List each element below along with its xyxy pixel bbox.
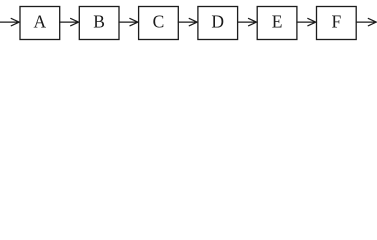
block E — [257, 7, 297, 40]
svg-text:F: F — [331, 11, 341, 31]
wire arrow C to D — [178, 18, 197, 25]
wire input arrow — [0, 18, 19, 25]
svg-text:A: A — [34, 11, 47, 31]
wire arrow B to C — [119, 18, 138, 25]
block C — [139, 7, 179, 40]
block A — [20, 7, 60, 40]
svg-text:C: C — [153, 11, 165, 31]
svg-text:D: D — [211, 11, 224, 31]
svg-text:B: B — [93, 11, 105, 31]
block D — [198, 7, 238, 40]
wire arrow E to F — [297, 18, 316, 25]
wire arrow A to B — [60, 18, 79, 25]
wire output arrow — [356, 18, 376, 25]
svg-text:E: E — [272, 11, 283, 31]
wire arrow D to E — [238, 18, 257, 25]
block F — [317, 7, 357, 40]
block B — [79, 7, 119, 40]
